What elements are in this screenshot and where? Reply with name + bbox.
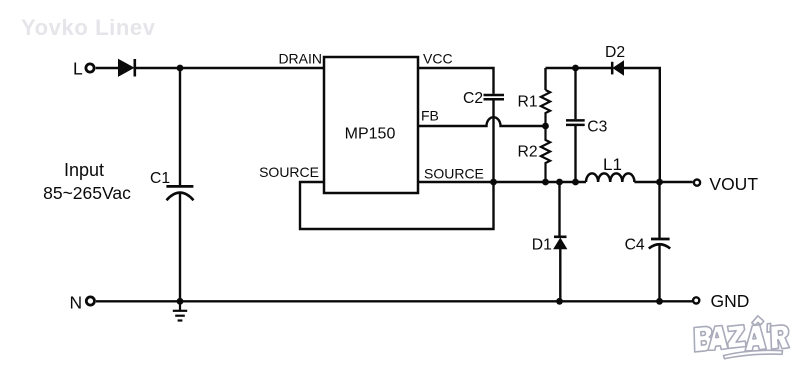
wire L1 to VOUT terminal [634,181,692,183]
svg-text:MP150: MP150 [345,126,396,143]
wire source return loop [300,182,494,229]
svg-text:C2: C2 [463,90,483,107]
svg-text:FB: FB [421,107,439,123]
wire top rail R1 corner to D2 [546,67,612,69]
capacitor C2 [484,94,505,97]
svg-text:DRAIN: DRAIN [278,51,322,67]
node FB divider junction [542,123,549,130]
wire L to diode [96,67,118,69]
watermark BAZAR logo [694,316,790,359]
node input junction [177,65,184,72]
wire N rail [96,300,693,302]
svg-text:R2: R2 [518,144,538,161]
ground symbol [179,301,181,311]
svg-text:C4: C4 [625,236,645,253]
svg-text:N: N [70,293,83,313]
node D1 top junction [556,179,563,186]
resistor R2 [541,126,550,182]
wire SOURCE pin to VOUT [418,181,586,183]
wire diode to DRAIN pin [136,67,324,69]
svg-text:85~265Vac: 85~265Vac [43,183,131,203]
wire top rail to R1 [544,68,546,90]
svg-text:C3: C3 [587,119,607,136]
terminal GND [693,297,699,303]
terminal VOUT [694,180,700,186]
svg-text:GND: GND [711,291,750,311]
inductor L1 [586,173,634,182]
diode D2 [611,62,614,75]
resistor R1 [541,90,550,126]
wire VCC pin to C2 branch [418,68,494,94]
svg-text:Input: Input [64,160,104,180]
svg-text:SOURCE: SOURCE [259,164,319,180]
svg-text:R1: R1 [518,93,538,110]
svg-text:D2: D2 [605,44,625,61]
node R2 bottom junction [542,179,549,186]
node C4 bottom junction [656,298,663,305]
svg-text:D1: D1 [532,237,552,254]
node C3 top junction [572,65,579,72]
IC U1 MP150 [324,57,418,193]
wire D2 to right rail corner [624,68,660,182]
capacitor C1 [166,185,193,188]
svg-text:VOUT: VOUT [709,174,758,194]
svg-text:L1: L1 [603,155,622,174]
svg-text:Yovko Linev: Yovko Linev [21,15,156,40]
input rectifier diode [119,60,134,77]
terminal L [86,64,94,72]
terminal N [86,297,94,305]
diode D1 freewheeling [558,182,560,236]
node VOUT junction [656,179,663,186]
svg-text:L: L [73,58,83,78]
node source loop/C2 junction [490,179,497,186]
svg-text:C1: C1 [150,170,170,187]
wire FB with hop over C2 branch [418,117,546,126]
node C1/ground junction [177,298,184,305]
wire junction down to C1 [179,68,181,186]
capacitor C3 [574,68,576,119]
svg-text:SOURCE: SOURCE [424,166,484,182]
svg-text:VCC: VCC [423,51,453,67]
capacitor C4 [658,182,660,239]
node D1 bottom junction [556,298,563,305]
node C3 bottom junction [572,179,579,186]
